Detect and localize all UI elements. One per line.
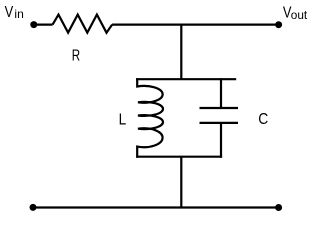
wire: tank down to ground rail (180, 157, 182, 208)
svg-text:L: L (119, 111, 127, 128)
node: bottom right terminal dot (275, 204, 282, 211)
wire: tank bottom rail (136, 156, 222, 158)
inductor L (137, 78, 163, 158)
label Vin (5, 4, 24, 21)
node: output terminal dot (275, 21, 282, 28)
wire: input to resistor (34, 24, 53, 26)
wire: bottom ground rail (33, 206, 279, 208)
wire: top junction down to tank (180, 25, 182, 80)
svg-text:in: in (14, 8, 23, 21)
svg-text:out: out (291, 8, 308, 22)
svg-text:R: R (72, 48, 80, 65)
capacitor C (200, 78, 239, 158)
svg-text:V: V (5, 4, 14, 21)
node: input terminal dot (30, 21, 37, 28)
wire: tank top rail (136, 78, 236, 80)
label Vout (283, 4, 308, 22)
svg-text:C: C (258, 111, 268, 128)
resistor R (53, 15, 113, 33)
node: bottom left terminal dot (30, 204, 37, 211)
wire: resistor to output (112, 24, 279, 26)
